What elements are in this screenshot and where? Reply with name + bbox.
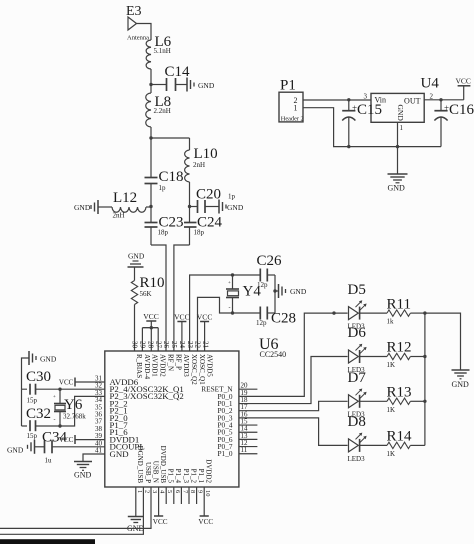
wire pin11 stub (239, 453, 258, 455)
node C16 top (439, 98, 442, 101)
antenna E3 (126, 4, 149, 42)
node Y6 top (58, 388, 61, 391)
wire USB_P pin2 to edge (0, 487, 143, 534)
wire P0_2 to D7 (239, 401, 348, 410)
svg-text:C14: C14 (165, 64, 191, 80)
svg-text:C30: C30 (26, 369, 51, 385)
svg-text:R12: R12 (387, 340, 412, 356)
inductor L12 (98, 190, 151, 220)
svg-text:AVDD1: AVDD1 (151, 354, 159, 377)
wire antenna to L6 (137, 24, 152, 41)
inductor L8 (146, 85, 171, 128)
svg-text:R10: R10 (140, 275, 165, 291)
svg-text:GND: GND (40, 355, 57, 364)
svg-text:1p: 1p (159, 184, 167, 192)
svg-text:Header 2: Header 2 (281, 115, 304, 122)
svg-text:GND: GND (110, 449, 129, 459)
wire pin7 stub (180, 487, 182, 504)
svg-text:1K: 1K (387, 450, 396, 458)
svg-text:U4: U4 (421, 76, 440, 92)
power VCC (DVDD2 pin10) (198, 487, 213, 526)
capacitor C34 (35, 430, 105, 465)
svg-text:10: 10 (204, 490, 211, 497)
node rail D7 (423, 400, 426, 403)
ground (32k xtal) (29, 351, 57, 365)
svg-text:GND: GND (396, 105, 405, 122)
wire RESET_N pin20 stub (239, 388, 258, 390)
svg-text:P1_5: P1_5 (167, 469, 175, 484)
svg-text:AVDD-4: AVDD-4 (143, 354, 151, 380)
node Y6 bottom (58, 424, 61, 427)
ground (R10) (128, 252, 145, 268)
node D5 anode (332, 311, 335, 314)
svg-text:2nH: 2nH (113, 212, 125, 220)
svg-text:P1_0: P1_0 (217, 449, 232, 458)
wire pin41 GND (83, 454, 105, 462)
svg-text:41: 41 (95, 447, 103, 455)
svg-text:1u: 1u (45, 457, 53, 465)
U6 top pin labels and numbers 30-21 (131, 341, 214, 385)
svg-text:11: 11 (241, 446, 248, 454)
svg-text:R11: R11 (387, 296, 411, 312)
svg-text:DVDD_USB: DVDD_USB (159, 446, 167, 484)
wire L6 to node (150, 69, 152, 85)
svg-text:GND: GND (74, 203, 91, 212)
op-amp/IC U6 CC2540 body (105, 336, 286, 487)
wire top split (151, 138, 190, 150)
svg-text:1: 1 (400, 124, 404, 132)
svg-text:1K: 1K (387, 361, 396, 369)
svg-text:DGND_USB: DGND_USB (136, 446, 144, 484)
svg-text:GND: GND (452, 380, 470, 389)
svg-text:25: 25 (170, 341, 178, 349)
svg-text:56K: 56K (140, 290, 152, 298)
wire pin13 stub (239, 438, 258, 440)
svg-text:7: 7 (181, 490, 188, 494)
svg-text:Y4: Y4 (243, 284, 262, 300)
svg-text:3: 3 (151, 490, 158, 493)
LED D8 (348, 414, 367, 463)
node left matching (149, 205, 152, 208)
node C14 junction (149, 83, 152, 86)
wire pin33 XOSC32K_Q2 (22, 389, 105, 426)
svg-text:3: 3 (364, 93, 368, 101)
svg-text:VCC: VCC (153, 518, 168, 526)
svg-text:28: 28 (146, 341, 154, 349)
wire L8 to matching node (150, 127, 152, 138)
svg-text:6: 6 (174, 490, 181, 494)
capacitor C14 (151, 64, 190, 91)
wire rail to gnd (425, 313, 461, 370)
svg-text:12p: 12p (256, 319, 267, 327)
svg-text:R13: R13 (387, 385, 412, 401)
svg-text:P1_2: P1_2 (189, 469, 197, 484)
wire XOSC_Q2 pin23 to top net (190, 275, 260, 351)
power VCC (U4 out) (456, 77, 471, 100)
svg-text:GND: GND (388, 184, 406, 193)
U6 bottom pin labels and numbers 1-10 (136, 446, 213, 497)
svg-text:30: 30 (131, 341, 139, 349)
svg-text:21: 21 (202, 341, 210, 349)
wire P0_1 to D6 (239, 357, 348, 404)
svg-text:VCC: VCC (456, 77, 471, 86)
svg-text:1: 1 (136, 490, 143, 493)
svg-text:8: 8 (189, 490, 196, 493)
capacitor C23 (145, 207, 184, 246)
svg-text:-: - (229, 306, 231, 312)
wire C24 to RF_P pin25 (174, 245, 190, 351)
svg-text:9: 9 (197, 490, 204, 493)
svg-text:C26: C26 (257, 253, 283, 269)
svg-text:C18: C18 (159, 169, 184, 185)
svg-text:+: + (53, 395, 56, 400)
svg-text:USB_N: USB_N (151, 461, 159, 483)
svg-text:27: 27 (154, 341, 162, 349)
svg-text:P1: P1 (280, 78, 296, 94)
svg-text:D6: D6 (348, 325, 367, 341)
power VCC (AVDD3) (174, 313, 190, 352)
svg-text:32.768k: 32.768k (63, 413, 86, 421)
ground (Y4) (275, 284, 307, 298)
svg-text:Y6: Y6 (64, 397, 83, 413)
U6 left pin labels and numbers 31-41 (95, 375, 184, 459)
ground (USB) (127, 517, 145, 534)
ground (C20) (219, 200, 244, 214)
inductor L10 (185, 146, 218, 207)
LED D6 (348, 325, 367, 374)
wire LED gnd rail (424, 313, 426, 445)
svg-text:GND: GND (7, 446, 24, 455)
svg-text:15p: 15p (27, 432, 38, 440)
LED D5 (348, 282, 367, 331)
svg-text:4: 4 (159, 490, 166, 494)
capacitor C18 (145, 138, 184, 207)
svg-text:C32: C32 (26, 406, 51, 422)
wire Y4 ground rail (274, 275, 276, 313)
svg-text:GND: GND (290, 287, 307, 296)
svg-text:P1_4: P1_4 (174, 469, 182, 484)
wire pin9 stub (196, 487, 198, 504)
svg-text:GND: GND (74, 471, 92, 480)
wire P0_0 to D5 (239, 313, 348, 396)
svg-text:C34: C34 (42, 430, 68, 446)
svg-text:2: 2 (143, 490, 150, 493)
svg-text:1k: 1k (387, 318, 395, 326)
svg-text:C20: C20 (196, 187, 221, 203)
svg-text:D5: D5 (348, 282, 366, 298)
svg-text:VCC: VCC (59, 379, 74, 387)
ground (L12) (74, 200, 98, 214)
power VCC (AVDD-4/1/2) (142, 312, 158, 351)
svg-text:18p: 18p (194, 229, 205, 237)
ground (pin41) (74, 462, 92, 480)
resistor R12 (360, 340, 425, 369)
wire XOSC_Q1 pin22 to bottom net (198, 297, 260, 351)
wire pin15 stub (239, 424, 258, 426)
wire pin6 stub (173, 487, 175, 504)
svg-text:VCC: VCC (197, 313, 213, 322)
resistor R11 (360, 296, 425, 325)
inductor L6 (146, 34, 172, 69)
wire DGND_USB pin1 (135, 487, 137, 517)
ground (LED rail) (452, 370, 470, 389)
svg-text:LED3: LED3 (348, 455, 366, 463)
svg-text:18p: 18p (158, 229, 169, 237)
resistor R13 (360, 385, 425, 414)
power VCC (AVDD5) (197, 313, 213, 352)
svg-text:Antenna: Antenna (127, 35, 149, 42)
wire C23 to RF_N pin26 (151, 245, 166, 351)
svg-text:AVDD2: AVDD2 (159, 354, 167, 377)
svg-text:GND: GND (227, 203, 244, 212)
svg-text:5: 5 (166, 490, 173, 493)
wire USB_N pin3 to edge (0, 487, 151, 528)
svg-text:XOSC_Q2: XOSC_Q2 (190, 354, 198, 385)
svg-text:5.1nH: 5.1nH (154, 47, 171, 55)
capacitor C15 (342, 100, 382, 147)
wire P1 pin2 to Vin (303, 93, 371, 101)
svg-text:VCC: VCC (143, 312, 159, 321)
svg-text:DVDD2: DVDD2 (205, 459, 213, 483)
wire P0_3 to D8 (239, 418, 348, 446)
wire OUT to VCC (424, 99, 464, 101)
node rail D6 (423, 355, 426, 358)
svg-text:1p: 1p (228, 193, 236, 201)
svg-text:RF_N: RF_N (166, 354, 174, 371)
node Y4 bottom (231, 311, 234, 314)
svg-text:24: 24 (178, 341, 186, 349)
wire pin5 stub (165, 487, 167, 504)
svg-text:22: 22 (194, 341, 202, 349)
power VCC (DVDD_USB pin4) (153, 487, 168, 526)
node rail D5 (423, 311, 426, 314)
svg-text:RF_P: RF_P (174, 354, 182, 370)
wire gnd rail xtal (22, 358, 30, 389)
svg-text:C15: C15 (357, 102, 382, 118)
connector P1 (279, 78, 304, 123)
svg-text:1: 1 (294, 103, 298, 112)
svg-text:D7: D7 (348, 370, 367, 386)
svg-text:1K: 1K (387, 406, 396, 414)
svg-text:29: 29 (139, 341, 147, 349)
node C15 bottom (347, 145, 350, 148)
node U4 gnd (396, 145, 399, 148)
svg-text:XOSC_Q1: XOSC_Q1 (198, 354, 206, 385)
capacitor C16 (434, 100, 474, 147)
node right matching (188, 205, 191, 208)
svg-text:C16: C16 (449, 102, 474, 118)
ground (C14) (187, 78, 215, 92)
svg-text:P1_1: P1_1 (197, 469, 205, 484)
crystal Y6 (53, 389, 86, 426)
svg-text:R_BIAS: R_BIAS (135, 354, 143, 378)
svg-text:-: - (54, 418, 56, 424)
node gnd stub (273, 289, 276, 292)
svg-text:D8: D8 (348, 414, 366, 430)
wire pin32 XOSC32K_Q1 (22, 388, 105, 390)
svg-text:AVDD5: AVDD5 (206, 354, 214, 377)
wire pin8 stub (188, 487, 190, 504)
node matching top (149, 136, 152, 139)
svg-text:GND: GND (198, 81, 215, 90)
node C15 top (347, 98, 350, 101)
svg-text:2.2nH: 2.2nH (154, 107, 171, 115)
svg-text:L12: L12 (113, 190, 137, 206)
svg-text:OUT: OUT (404, 97, 421, 106)
svg-text:+: + (228, 281, 231, 286)
svg-text:CC2540: CC2540 (260, 350, 287, 359)
svg-text:15p: 15p (27, 397, 38, 405)
U6 right pin labels and numbers 20-11 (201, 382, 248, 459)
resistor R14 (360, 429, 425, 458)
svg-text:L10: L10 (194, 146, 218, 162)
capacitor C30 (26, 369, 51, 405)
capacitor C20 (190, 187, 236, 214)
node Y4 top (231, 273, 234, 276)
capacitor C28 (256, 307, 296, 328)
resistor R10 (131, 267, 164, 351)
capacitor C32 (26, 406, 51, 440)
svg-text:GND: GND (128, 252, 145, 261)
capacitor C24 (184, 207, 223, 246)
wire pin12 stub (239, 446, 258, 448)
wire U4 gnd pin (397, 122, 399, 146)
capacitor C26 (257, 253, 283, 289)
crystal Y4 (226, 275, 261, 313)
power VCC (DVDD1 pin39) (59, 435, 105, 444)
wire P1 pin1 to gnd rail (303, 108, 441, 147)
svg-text:P1_3: P1_3 (182, 469, 190, 484)
svg-text:26: 26 (162, 341, 170, 349)
LED D7 (348, 370, 367, 419)
voltage regulator U4 (371, 76, 439, 133)
svg-text:VCC: VCC (198, 518, 213, 526)
svg-text:R14: R14 (387, 429, 413, 445)
svg-text:USB_P: USB_P (144, 462, 152, 483)
ground (U4) (388, 147, 408, 193)
wire pin14 stub (239, 431, 258, 433)
svg-text:VCC: VCC (174, 313, 190, 322)
svg-text:23: 23 (186, 341, 194, 349)
svg-text:2nH: 2nH (193, 161, 205, 169)
power VCC (AVDD6 pin31) (59, 378, 105, 387)
ground (C34) (7, 440, 35, 455)
thick crop bar bottom-left (0, 539, 95, 544)
svg-text:AVDD3: AVDD3 (182, 354, 190, 377)
